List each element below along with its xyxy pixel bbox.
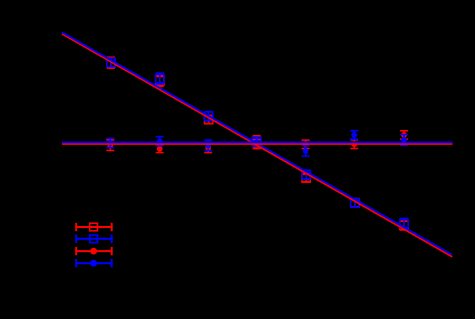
blue square data point S4b: open square with y error bar at (256.6,141.6) [252, 137, 260, 146]
red square data point S3r: open square with y error bar at (208.6,119.6) [204, 115, 212, 123]
red circle data point C4r: filled circle with y error bar at (256.6,144.2) [253, 140, 261, 149]
red square data point S1r: open square with y error bar at (110.9,62.7) [107, 57, 115, 68]
blue square data point S6b: open square with y error bar at (354.9,202.9) [351, 199, 359, 208]
red square data point S7r: open square with y error bar at (404.0,225.5) [400, 221, 408, 230]
blue horizontal fit line [62, 141, 453, 143]
red diagonal fit line [62, 34, 452, 257]
blue square data point S3b: open square with y error bar at (208.6,116.2) [204, 112, 212, 121]
blue square data point S5b: open square with y error bar at (306.2,174.7) [302, 170, 310, 179]
red circle data point C3r: filled circle with y error bar at (208.2,147.7) [204, 143, 212, 153]
legend entry 1: red open-square sample [75, 223, 112, 231]
blue square data point S7b: open square with y error bar at (404.0,223.3) [400, 218, 408, 228]
red circle data point C6r: filled circle with y error bar at (354.2,144.2) [350, 140, 358, 149]
red circle data point C1r: filled circle with y error bar at (110.3,145.2) [106, 140, 114, 151]
red square data point S2r: open square with y error bar at (159.8,80.8) [156, 75, 164, 86]
blue square data point S1b: open square with y error bar at (111.0,62.5) [107, 58, 115, 67]
red horizontal fit line [62, 143, 453, 145]
red square data point S5r: open square with y error bar at (306.2,178.0) [302, 174, 310, 182]
legend entry 4: blue filled-circle sample [75, 259, 112, 267]
legend entry 3: red filled-circle sample [75, 247, 112, 255]
red square data point S6r: open square with y error bar at (354.9,202.8) [351, 199, 359, 207]
blue circle data point C2b: filled circle with y error bar at (159.7,141.3) [156, 137, 164, 146]
blue circle data point C6b: filled circle with y error bar at (354.2,134.9) [350, 131, 358, 140]
blue circle data point C4b: filled circle with y error bar at (256.6,142.3) [253, 138, 261, 146]
blue circle data point C5b: filled circle with y error bar at (305.6,150.9) [302, 146, 310, 156]
red square data point S4r: open square with y error bar at (256.6,141.4) [252, 136, 260, 147]
blue square data point S2b: open square with y error bar at (159.8,78.5) [156, 73, 164, 84]
red circle data point C5r: filled circle with y error bar at (305.6,144.3) [302, 140, 310, 148]
blue circle data point C3b: filled circle with y error bar at (208.2,145.4) [204, 140, 212, 151]
blue circle data point C1b: filled circle with y error bar at (110.3,143.0) [106, 138, 114, 147]
red circle data point C2r: filled circle with y error bar at (159.7,148.9) [156, 145, 164, 152]
blue diagonal fit line [62, 32, 452, 254]
legend entry 2: blue open-square sample [75, 235, 112, 243]
blue circle data point C7b: filled circle with y error bar at (404.0,140.0) [400, 135, 408, 146]
red circle data point C7r: filled circle with y error bar at (404.0,134.9) [400, 131, 408, 139]
